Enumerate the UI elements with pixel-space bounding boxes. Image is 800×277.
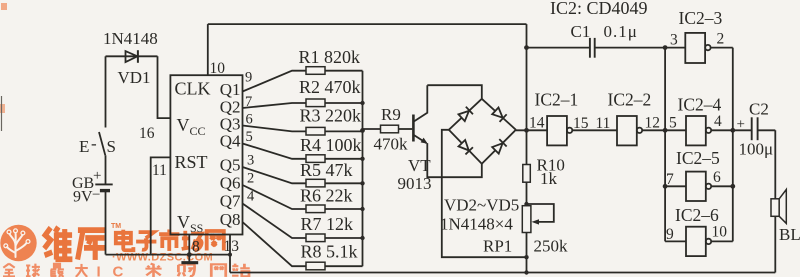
svg-text:11: 11 [152,162,167,179]
inverter IC2-5 [665,172,733,201]
wire IC2 input bus x665 [664,48,666,242]
wire Q8 diagonal [243,222,307,266]
svg-text:16: 16 [139,125,155,142]
node R2 bus [360,101,364,105]
svg-text:VT: VT [408,156,431,175]
svg-text:R6 22k: R6 22k [300,186,353,206]
wire battery bottom rail [106,254,231,256]
svg-text:9: 9 [666,226,674,243]
svg-text:E: E [79,137,89,156]
svg-text:9013: 9013 [398,174,432,193]
svg-text:VD2~VD5: VD2~VD5 [444,196,519,215]
svg-text:12: 12 [645,115,661,132]
wire collector to bridge top [427,85,482,99]
svg-text:1N4148: 1N4148 [103,29,158,48]
node IC2-5 output [730,184,735,189]
wire top rail [208,23,527,25]
inverter IC2-1 [547,116,617,145]
wire VD1 row [106,55,158,57]
resistor R5 [306,179,363,187]
svg-text:−: − [92,187,100,203]
svg-text:C: C [113,264,124,277]
svg-text:Q6: Q6 [220,174,241,193]
svg-text:100μ: 100μ [739,140,774,159]
svg-text:6: 6 [246,112,253,128]
svg-text:14: 14 [529,115,545,132]
wire speaker drop [774,130,776,272]
wire pin16 VCC [158,56,171,118]
node R6 bus [360,207,364,211]
inverter IC2-4 [686,116,752,145]
svg-text:11: 11 [596,115,611,132]
wire Q4 diagonal [243,144,307,159]
node IC2-3 input [663,45,668,50]
svg-text:10: 10 [712,224,728,241]
node RP1 top [524,202,528,206]
svg-text:Q1: Q1 [220,80,241,99]
resistor R10 [523,165,531,183]
svg-text:R8 5.1k: R8 5.1k [301,242,358,262]
svg-text:15: 15 [573,115,589,132]
svg-text:BL: BL [779,225,800,244]
svg-text:5: 5 [246,129,253,145]
wire bridge left corner to RP1 bottom [442,130,527,257]
switch S blade [99,132,105,155]
resistor R8 [306,262,363,270]
svg-text:250k: 250k [534,237,569,256]
svg-text:R1 820k: R1 820k [299,47,361,67]
svg-text:0.1μ: 0.1μ [604,22,638,41]
svg-text:CLK: CLK [175,79,211,99]
wire bridge right corner to IC2-1 [516,129,547,131]
svg-text:S: S [107,137,116,156]
node rail x230 [228,253,232,257]
svg-text:10: 10 [210,60,226,77]
big char WEI [44,227,72,260]
svg-text:1N4148×4: 1N4148×4 [440,215,513,234]
node C1 tap [524,45,529,50]
svg-text:1k: 1k [540,169,558,188]
diode VD5 bottom-right [492,139,507,154]
battery GB plates [95,184,112,190]
svg-text:+: + [737,117,745,133]
potentiometer RP1 wiper hook [527,204,554,225]
node R5 bus [360,181,364,185]
svg-text:13: 13 [224,238,240,255]
svg-text:R9: R9 [381,105,401,124]
svg-text:IC2–4: IC2–4 [678,95,722,115]
node rail x526 [524,270,528,274]
svg-text:RP1: RP1 [483,237,512,256]
wire switch to battery [105,155,107,184]
IC U1 CD4017 box [170,75,242,234]
capacitor C2 [752,117,776,140]
svg-text:R4 100k: R4 100k [300,135,362,155]
resistor R1 [306,67,363,75]
inverter IC2-3 [685,33,733,63]
svg-text:Q8: Q8 [220,210,241,229]
wire Q3 diagonal [243,126,307,132]
med char ZI [136,232,156,250]
wire resistor bus [362,71,364,267]
node R4 bus [360,157,364,161]
node R3 bus [360,128,365,133]
svg-text:-: - [91,134,97,153]
svg-text:Q5: Q5 [220,156,241,175]
med char SHI [159,229,179,251]
bottom row: QUAN QIU ZUI DA I C CAI GOU WANG ZHAN [3,264,88,277]
resistor R7 [306,234,363,242]
node IC2-4 output [730,128,735,133]
node RP1 bottom [524,255,528,259]
svg-text:IC2–2: IC2–2 [608,90,652,110]
med char DIAN [116,230,134,251]
svg-text:R3 220k: R3 220k [300,106,362,126]
svg-text:I: I [97,264,101,277]
svg-text:IC2: CD4049: IC2: CD4049 [550,0,648,18]
ground bar [181,261,198,264]
wire emitter to bridge bottom [427,143,482,177]
transistor Q VT 9013 [413,85,427,144]
wire pin10 riser [207,24,209,75]
capacitor C1 [527,38,686,58]
diode bridge VD2-VD5 diamond [449,99,516,164]
wire pin13 drop [229,235,231,273]
inverter IC2-6 [665,227,733,256]
svg-text:470k: 470k [374,135,409,154]
svg-text:+: + [93,168,101,184]
svg-text:C1: C1 [571,22,591,41]
wire IC2 output bus x732 [732,48,734,242]
svg-text:7: 7 [245,94,252,110]
svg-text:8: 8 [192,239,200,256]
svg-text:9: 9 [245,70,252,86]
svg-text:9V: 9V [73,189,93,206]
svg-text:IC2–1: IC2–1 [535,90,579,110]
svg-text:2: 2 [717,31,725,48]
svg-text:C2: C2 [749,100,769,119]
big char KU [78,230,106,260]
svg-text:7: 7 [666,171,674,188]
diode VD3 top-right [492,107,507,122]
svg-text:IC2–5: IC2–5 [676,148,720,168]
med char WANG [207,231,224,250]
diode VD1 [126,50,138,63]
wire Q5 diagonal [243,167,307,183]
wire bottom rail [230,272,775,274]
svg-text:2: 2 [247,171,254,187]
wire Q7 diagonal [243,204,307,239]
svg-text:3: 3 [247,153,254,169]
wire VSS pin 8 [188,235,190,263]
node VSS battery rail [187,252,192,257]
svg-text:Q4: Q4 [220,132,241,151]
resistor R6 [306,205,363,213]
logo circle [0,225,36,261]
svg-text:TM: TM [111,223,121,230]
wire battery negative drop [105,191,107,255]
svg-text:VD1: VD1 [118,68,151,87]
resistor R2 [306,99,363,107]
diode VD4 bottom-left [458,140,473,155]
svg-text:R7 12k: R7 12k [301,214,354,234]
svg-text:6: 6 [713,169,721,186]
inverter IC2-2 [617,116,686,145]
small orange edge marks [1,3,7,10]
WATERMARK [0,3,250,277]
svg-text:R2 470k: R2 470k [299,77,361,97]
resistor R3 [306,127,363,135]
svg-text:R5 47k: R5 47k [300,160,353,180]
wire Q2 diagonal [243,103,307,108]
svg-text:3: 3 [670,32,678,49]
resistor R4 [306,155,363,163]
node 14 [524,128,529,133]
svg-text:4: 4 [714,113,722,130]
wire Q6 diagonal [243,185,307,209]
med char CHANG [182,231,202,251]
node R7 bus [360,236,364,240]
speaker BL [771,190,786,224]
potentiometer RP1 body [522,206,531,233]
node IC2-5 input [663,184,668,189]
resistor R9 [363,125,413,133]
node IC2-4 input [663,128,668,133]
svg-text:5: 5 [669,115,677,132]
wire main vertical x526 [526,24,528,272]
diode VD2 top-left [458,107,473,122]
svg-text:IC2–3: IC2–3 [679,8,723,28]
svg-text:RST: RST [175,152,208,172]
svg-text:IC2–6: IC2–6 [675,205,719,225]
svg-text:4: 4 [247,189,255,205]
svg-text:Q7: Q7 [220,192,241,211]
wire RST pin 11 [151,157,171,254]
wire Q1 diagonal [243,71,307,92]
wire VD1 left drop to switch [105,56,107,127]
scan edge line [1,96,3,131]
